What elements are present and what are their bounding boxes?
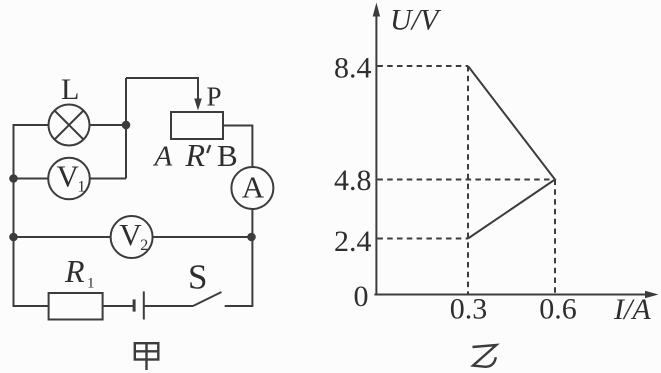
svg-text:R: R — [185, 137, 206, 173]
svg-text:8.4: 8.4 — [334, 52, 372, 85]
svg-text:2.4: 2.4 — [334, 225, 372, 258]
svg-text:V: V — [119, 217, 142, 252]
svg-text:I/A: I/A — [613, 293, 651, 326]
svg-text:P: P — [207, 82, 222, 112]
svg-text:S: S — [188, 258, 207, 297]
svg-text:1: 1 — [87, 276, 95, 292]
svg-text:V: V — [57, 159, 80, 194]
svg-text:A: A — [242, 170, 265, 205]
svg-text:U/V: U/V — [390, 4, 442, 37]
svg-text:1: 1 — [78, 179, 86, 196]
svg-text:0.6: 0.6 — [539, 293, 577, 326]
svg-text:A: A — [153, 141, 173, 173]
svg-text:B: B — [217, 138, 238, 173]
svg-text:R: R — [64, 253, 85, 289]
svg-text:0: 0 — [354, 280, 369, 313]
svg-text:2: 2 — [140, 237, 148, 254]
svg-text:L: L — [61, 73, 79, 106]
svg-text:0.3: 0.3 — [450, 293, 488, 326]
svg-text:4.8: 4.8 — [334, 164, 372, 197]
